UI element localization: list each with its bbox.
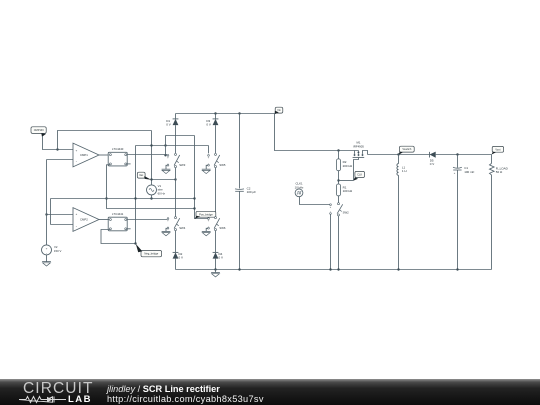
node Vswitch dot [397,153,399,155]
wire U1 out to SW3 control [127,154,167,156]
svg-text:-: - [208,161,209,165]
svg-text:-: - [46,251,47,255]
wire V2 rail x46.5 [46,160,48,245]
svg-text:-: - [330,209,331,213]
wire R_LOAD bottom lead [491,175,493,270]
svg-text:Vin: Vin [277,109,281,112]
wire mesh y135.5 [166,135,195,137]
wire Vout drop [491,155,493,164]
wire R2-R1 node [337,171,353,184]
wire SW5 control feed [208,146,210,154]
resistor R1 100k [337,184,353,196]
ground at SW6 control [202,231,211,235]
node dots y198.5 [134,197,195,199]
svg-text:Neg_bridge: Neg_bridge [144,252,158,256]
svg-text:SW2: SW2 [343,211,350,215]
net flag Vout [492,146,504,154]
svg-text:50 Ω: 50 Ω [496,170,503,174]
diode D5 [430,152,436,167]
svg-text:LTC4440: LTC4440 [112,147,124,151]
svg-text:0 V: 0 V [430,162,435,166]
wire Vin drop and feed to M1 [275,114,359,151]
wire CMP1 minus input [47,159,74,161]
wire U2 pin stub [127,228,131,230]
resistor R_LOAD 50 ohm [490,163,509,175]
wire CMP2 minus riser [50,199,52,225]
node V1 top dots [150,178,176,180]
net flag Vac [137,172,151,180]
svg-text:Pos_bridge: Pos_bridge [199,212,213,216]
wire U1 pin stub [127,163,131,165]
svg-text:IRF4905: IRF4905 [353,145,364,149]
switch SW2 [330,203,349,216]
svg-text:100 µF: 100 µF [247,190,257,194]
wire ground stub on bus [215,270,217,273]
switch SW3 [167,153,186,167]
wire CMP1 output [99,154,109,156]
wire CMP2 plus input [45,213,73,215]
wire U1 low-side return [107,165,195,209]
op-amp CMP1 [73,143,99,167]
svg-text:100 kΩ: 100 kΩ [343,189,353,193]
node U1 return dots [105,197,195,209]
wire SW2 control return to bus [330,214,332,269]
transistor M1 IRF4905 [353,141,368,181]
wire C2 bottom [239,191,241,269]
wire SW4 control ground stub [166,228,167,231]
voltage source V1 sine 60 Hz [147,184,166,195]
wire M1 drain out [368,154,430,156]
gate driver U1 LTC4440 [108,147,127,166]
svg-text:+: + [46,246,48,250]
wire CLK1 to SW2 control [300,197,330,205]
wire D3 cathode stub [215,114,217,119]
wire D1 cathode stub [175,114,177,119]
diode D1 [166,119,178,127]
wire U2 low-side return [101,230,137,245]
svg-text:150 V: 150 V [54,249,61,253]
svg-text:CMP1IN: CMP1IN [34,128,44,132]
diode D2 [173,252,183,260]
wire CMP1IN feedback top [58,131,152,150]
svg-text:-: - [208,224,209,228]
inductor L1 1 H [397,164,407,176]
wire SW6 to D4 [215,231,217,253]
node top bus dots [214,112,240,114]
svg-text:10 kHz: 10 kHz [295,185,304,189]
ground at SW4 control [162,231,171,235]
wire SW3 control ground stub [166,165,167,169]
wire SW4 to D2 [175,231,177,253]
svg-text:60 Hz: 60 Hz [158,191,166,195]
wire SW6 control ground stub [206,228,207,231]
ground at SW3 control [162,169,171,173]
svg-text:+: + [76,149,78,153]
wire C1 bottom lead [457,170,459,270]
wire mesh vertical x135.5 [135,146,137,244]
ground at SW5 control [202,169,211,173]
wire V1 top to bridge mid-left [152,179,176,181]
svg-text:SW3: SW3 [179,163,186,167]
wire node row y198.5 [51,198,195,200]
voltage source V2 150 V [42,245,62,255]
wire CMP2 output [99,219,109,221]
net flag CMP1IN [31,127,73,150]
net flag Vswitch [399,146,415,155]
svg-text:0 V: 0 V [219,256,224,260]
capacitor C2 100uF [235,187,256,195]
wire V2 to ground [46,255,48,262]
node output dots [456,153,458,155]
switch SW5 [208,153,226,167]
wire SW2 contact to bus [338,216,340,270]
wire bridge left mid [175,168,177,217]
wire D4 anode to bus [215,259,217,270]
svg-text:SW5: SW5 [219,163,226,167]
wire C1 top lead [457,155,459,168]
switch SW4 [167,217,186,231]
wire D3 anode to SW5 [215,125,217,153]
diode D4 [213,252,223,260]
wire D5 to output node [436,154,492,156]
switch SW6 [208,217,226,231]
node M1 feed dot [337,149,339,151]
svg-text:Vswitch: Vswitch [402,147,411,151]
ground main [211,273,220,277]
svg-text:-: - [168,224,169,228]
wire D1 anode to SW3 [175,125,177,153]
wire L1 bottom lead [398,175,400,269]
wire U2 out to SW4 control [127,219,167,221]
svg-text:Vout: Vout [495,148,500,151]
wire bridge right mid [215,168,217,217]
wire R1 bottom lead [338,196,340,203]
clock source CLK1 10 kHz [295,182,304,197]
svg-text:LTC4441: LTC4441 [112,212,124,216]
svg-text:+: + [76,212,78,216]
svg-text:100 mF: 100 mF [464,170,474,174]
wire D2 anode to bus [175,259,177,270]
wire mesh vertical x165.5 [164,136,166,157]
resistor R2 200k [337,159,353,171]
wire V1 bottom [151,195,153,199]
svg-text:CMP2: CMP2 [80,218,88,222]
node CMP1IN junction [56,148,58,150]
net flag Pos_bridge [195,211,216,219]
net flag Neg_bridge [136,244,162,257]
capacitor C1 100mF [453,166,475,175]
wire cross mesh y145 [136,145,209,147]
wire L1 top lead [398,155,400,164]
net flag CLK [354,171,365,180]
wire SW5 control ground stub [206,165,207,169]
wire feedback drop to V1 top [151,131,153,185]
svg-text:200 kΩ: 200 kΩ [343,164,353,168]
svg-text:0 V: 0 V [179,256,184,260]
svg-text:1 H: 1 H [402,169,407,173]
svg-text:0 V: 0 V [206,123,211,127]
wire C2 top [239,114,241,189]
svg-text:CMP1: CMP1 [80,153,88,157]
node bottom bus dots [214,268,458,270]
svg-text:SW6: SW6 [219,226,226,230]
diode D3 [206,119,218,127]
op-amp CMP2 [73,208,99,232]
ground below V2 [42,262,51,266]
wire CMP2 minus input [51,224,74,226]
wire top bus [176,113,275,115]
wire mesh vertical x194.5 to Pos_bridge node [195,136,208,219]
svg-text:SW4: SW4 [179,226,186,230]
svg-text:CLK: CLK [357,173,362,176]
node mesh dots y145 [150,144,166,146]
gate driver U2 LTC4440 [108,212,127,231]
wire bottom bus [176,269,492,271]
net flag Vin [275,107,283,114]
wire R2 top lead [338,151,340,159]
svg-text:0 V: 0 V [166,123,171,127]
svg-text:-: - [168,161,169,165]
